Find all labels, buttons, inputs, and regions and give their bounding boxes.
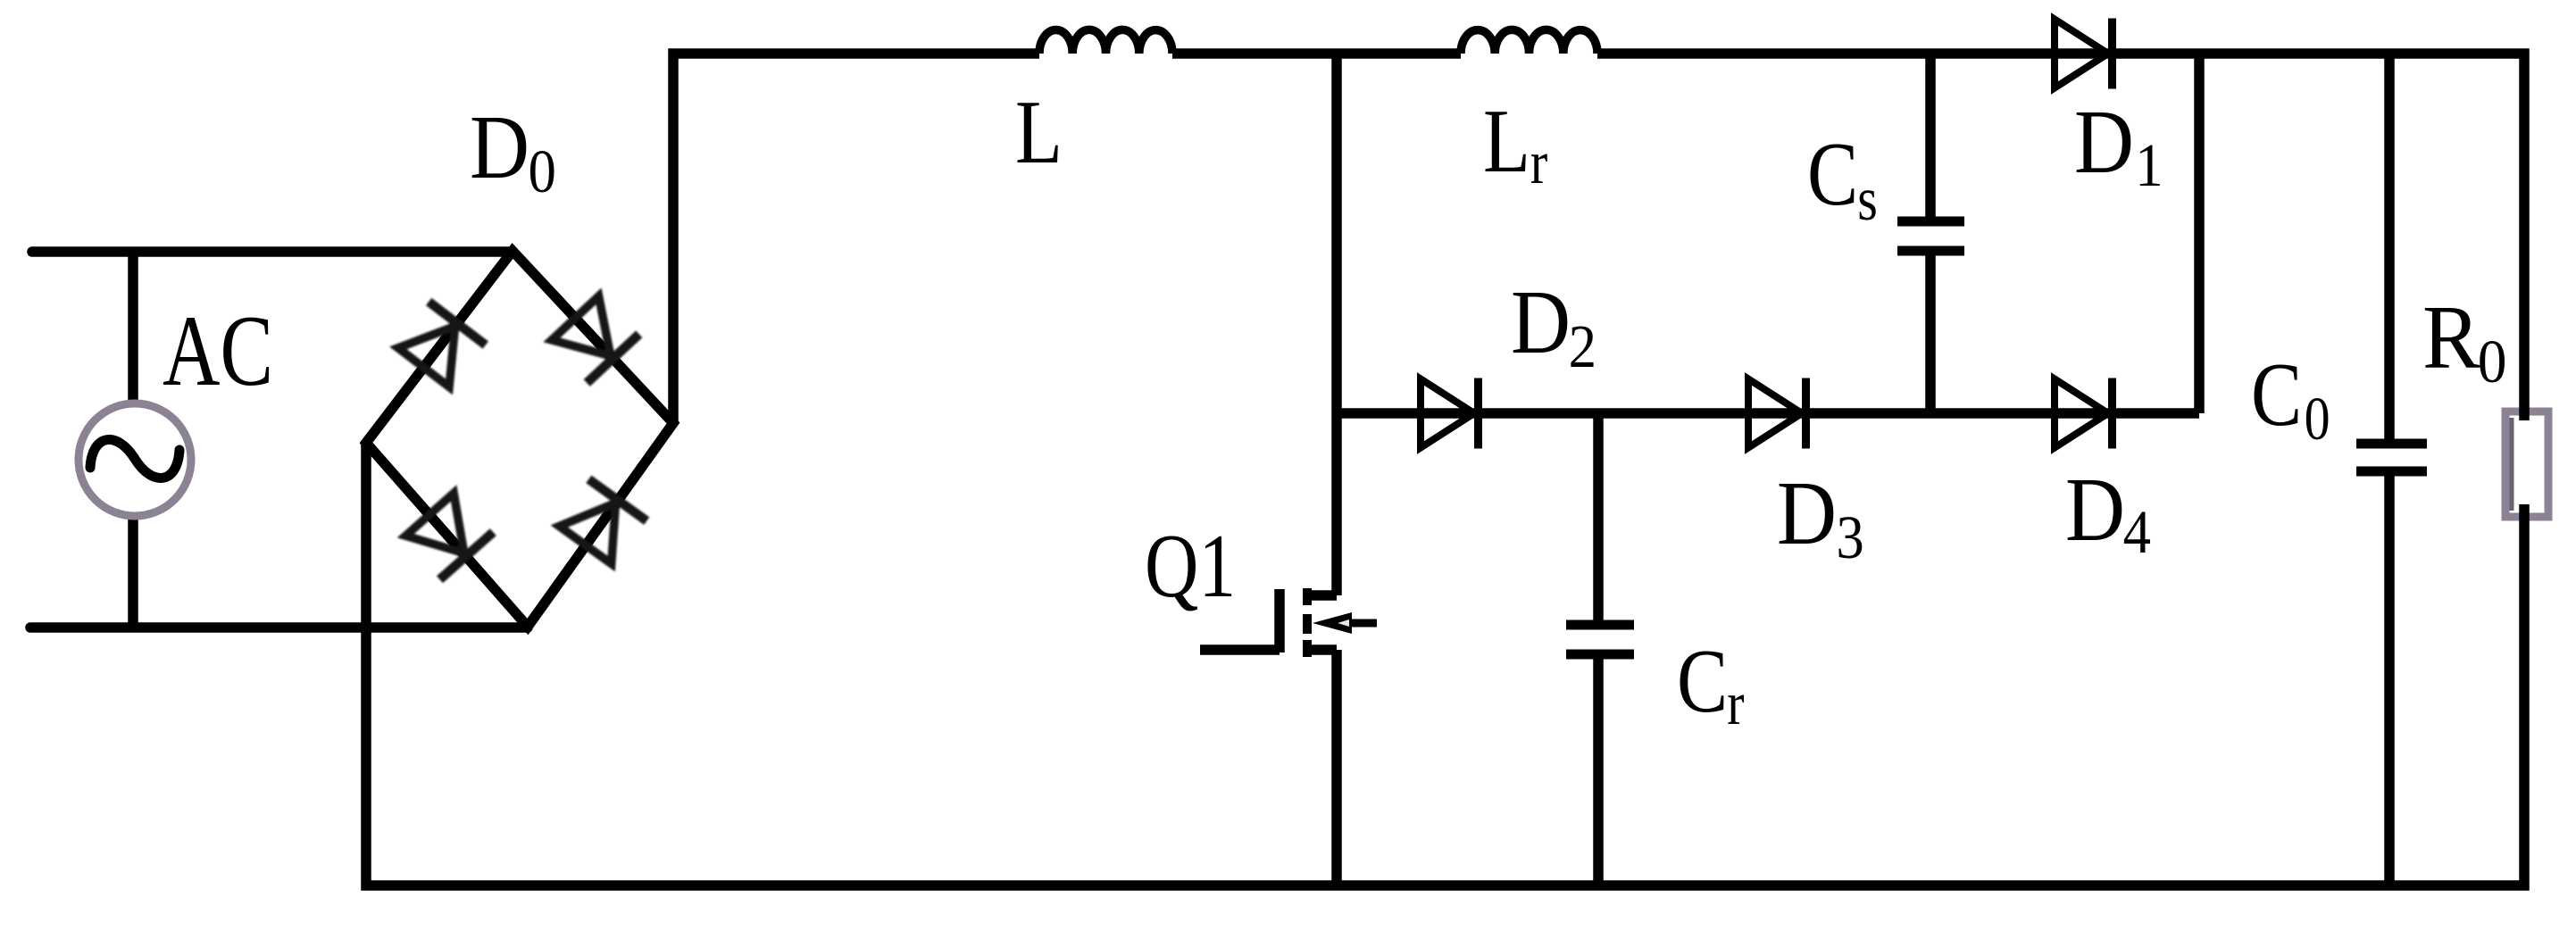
svg-text:L: L — [1483, 92, 1530, 192]
svg-text:C: C — [2251, 345, 2302, 445]
svg-text:C: C — [1677, 631, 1728, 732]
svg-text:L: L — [1015, 83, 1063, 183]
svg-text:D: D — [1511, 272, 1571, 373]
svg-text:D: D — [2074, 92, 2134, 193]
svg-text:0: 0 — [529, 137, 556, 205]
svg-text:1: 1 — [2135, 131, 2163, 199]
svg-text:2: 2 — [1569, 312, 1596, 380]
svg-text:0: 0 — [2305, 384, 2330, 453]
svg-text:3: 3 — [1836, 503, 1863, 571]
svg-text:0: 0 — [2478, 327, 2507, 395]
svg-text:C: C — [1807, 124, 1858, 225]
svg-text:s: s — [1857, 164, 1878, 233]
svg-text:D: D — [2065, 460, 2125, 561]
svg-text:4: 4 — [2123, 498, 2151, 566]
svg-text:D: D — [470, 97, 529, 198]
svg-text:D: D — [1777, 463, 1837, 564]
svg-text:r: r — [1530, 129, 1548, 197]
svg-text:Q1: Q1 — [1145, 516, 1236, 617]
svg-text:AC: AC — [163, 295, 273, 407]
svg-text:r: r — [1727, 669, 1744, 737]
svg-text:R: R — [2422, 287, 2480, 388]
